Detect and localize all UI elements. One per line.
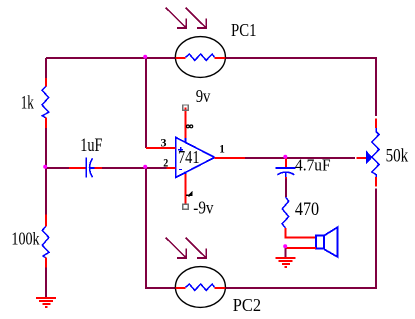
potentiometer 50k xyxy=(372,118,379,186)
wire left vertical upper xyxy=(45,58,47,78)
junction dot left node xyxy=(43,165,47,169)
wire speaker bottom to ground junction xyxy=(285,247,316,249)
resistor R1 1k xyxy=(42,78,49,128)
wire left vertical middle xyxy=(45,128,47,214)
light arrow 2 for PC1 xyxy=(186,8,207,28)
pin 8 number xyxy=(187,125,193,128)
wire middle junction to pin 2 xyxy=(146,167,167,169)
wire junction down to ground xyxy=(285,248,287,258)
op-amp plus marker xyxy=(178,147,183,152)
svg-text:9v: 9v xyxy=(196,86,211,106)
wire left vertical lower to ground xyxy=(45,268,47,298)
wire PC2 right to bottom-right corner up to pot xyxy=(225,188,376,288)
wire PC1 right to top-right corner down to pot xyxy=(225,58,376,116)
terminal V- square xyxy=(183,204,188,209)
wire middle vertical to pin3 corner xyxy=(145,58,147,148)
svg-text:470: 470 xyxy=(295,200,319,220)
svg-text:741: 741 xyxy=(178,147,200,167)
svg-text:2: 2 xyxy=(163,156,168,170)
svg-text:-9v: -9v xyxy=(193,198,213,218)
pin 2 wire xyxy=(167,167,176,169)
wire C1 to middle junction xyxy=(102,167,146,169)
resistor R2 100k xyxy=(42,214,49,267)
svg-text:PC1: PC1 xyxy=(231,20,257,40)
terminal V+ square xyxy=(183,105,188,110)
pot wiper xyxy=(356,152,371,164)
svg-text:4.7uF: 4.7uF xyxy=(295,155,331,174)
junction dot top xyxy=(143,55,147,59)
light arrow 1 for PC2 xyxy=(166,238,187,258)
ground (right) xyxy=(275,258,295,267)
capacitor C1 1uF xyxy=(69,158,102,178)
svg-text:100k: 100k xyxy=(11,228,39,248)
pin 3 wire xyxy=(146,147,176,149)
capacitor C2 4.7uF xyxy=(275,158,295,179)
pin 4 wire (V-) xyxy=(185,171,187,204)
speaker SP1 xyxy=(316,227,338,257)
wire op-amp output to pot wiper xyxy=(245,157,355,159)
junction dot output node xyxy=(283,155,287,159)
svg-text:1uF: 1uF xyxy=(80,136,102,156)
op-amp U1 741 triangle xyxy=(176,137,215,177)
wire top left horizontal xyxy=(46,57,146,59)
ground (left) xyxy=(36,298,56,307)
svg-text:50k: 50k xyxy=(386,147,409,167)
pin 1 output wire xyxy=(215,157,245,159)
pin 8 wire (V+) xyxy=(185,108,187,143)
wire junction to PC1 left xyxy=(146,57,176,59)
junction dot middle node xyxy=(143,165,147,169)
photocell PC2 xyxy=(175,267,225,308)
svg-text:1k: 1k xyxy=(21,94,35,114)
svg-text:3: 3 xyxy=(161,135,167,149)
pin 4 number xyxy=(186,192,193,197)
wire middle junction down to PC2 xyxy=(146,168,176,288)
junction dot speaker ground node xyxy=(283,244,287,248)
wire C2 to 470 xyxy=(285,179,287,198)
light arrow 2 for PC2 xyxy=(186,238,207,258)
wire left node to C1 xyxy=(46,167,69,169)
op-amp minus marker xyxy=(179,169,182,171)
light arrow 1 for PC1 xyxy=(166,8,187,28)
svg-text:1: 1 xyxy=(219,142,225,156)
svg-text:PC2: PC2 xyxy=(233,295,261,315)
resistor R3 470 xyxy=(282,197,316,237)
photocell PC1 xyxy=(175,37,225,78)
